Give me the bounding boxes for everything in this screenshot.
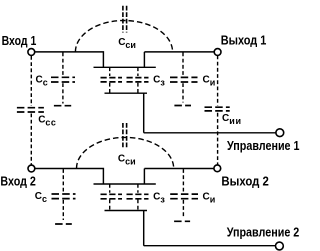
svg-text:Управление 1: Управление 1 [227,139,300,153]
svg-text:Вход 1: Вход 1 [2,34,37,48]
svg-text:Выход 2: Выход 2 [221,175,269,189]
svg-text:Вход 2: Вход 2 [0,174,36,188]
svg-text:Управление 2: Управление 2 [227,225,300,239]
svg-text:Выход 1: Выход 1 [221,34,267,48]
